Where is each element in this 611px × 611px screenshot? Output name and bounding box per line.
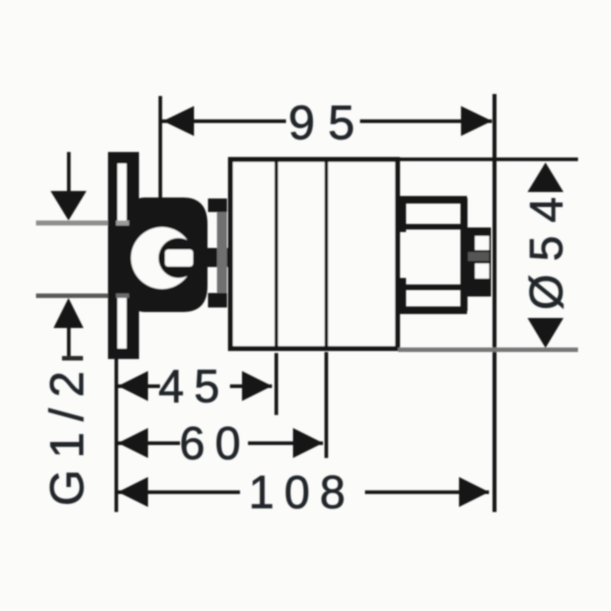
step bottom-left hook bbox=[400, 278, 407, 312]
svg-text:Ø54: Ø54 bbox=[520, 184, 572, 310]
dim-60 left arrowhead bbox=[118, 428, 148, 458]
main body outline bbox=[231, 160, 398, 349]
spindle broach ring bbox=[159, 238, 199, 278]
step inner top line bbox=[405, 224, 462, 230]
dim-95 dimension line bbox=[162, 119, 286, 123]
dim-95 right arrowhead bbox=[461, 106, 492, 136]
dim-45 left arrowhead bbox=[118, 371, 148, 401]
G1/2 upper pipe line (gray) bbox=[36, 221, 113, 226]
valve body hub bbox=[134, 198, 208, 313]
svg-text:95: 95 bbox=[288, 97, 367, 150]
thread mid shade bbox=[468, 252, 489, 261]
adapter gray bar bbox=[217, 202, 227, 306]
svg-text:45: 45 bbox=[158, 360, 229, 412]
dim-95 / dim-108 right extension line bbox=[493, 94, 497, 512]
G1/2 vertical leader lower segment bbox=[67, 327, 71, 358]
wall flange inner slot bbox=[118, 164, 127, 349]
wall-face extension line bbox=[115, 359, 119, 512]
step top-left hook bbox=[400, 198, 407, 232]
svg-text:108: 108 bbox=[249, 466, 356, 518]
step outer bottom line bbox=[398, 307, 467, 315]
svg-text:60: 60 bbox=[179, 417, 250, 469]
Ø54 up arrowhead bbox=[528, 163, 564, 193]
G1/2 leader dash bbox=[62, 356, 83, 361]
dim-60 right extension line bbox=[325, 352, 329, 458]
dim-108 right arrowhead bbox=[459, 477, 489, 507]
wall flange plate bbox=[108, 152, 139, 359]
G1/2 lower pipe line (gray) bbox=[36, 294, 113, 299]
G1/2 vertical leader upper segment bbox=[67, 152, 71, 194]
body seam line B bbox=[325, 162, 329, 346]
Ø54 down arrowhead bbox=[528, 318, 564, 348]
step inner bottom line bbox=[405, 285, 462, 291]
adapter top cap bbox=[208, 199, 227, 213]
dim-108 left arrowhead bbox=[118, 477, 148, 507]
dim-60 right arrowhead bbox=[293, 428, 323, 458]
G1/2 down arrowhead bbox=[51, 191, 87, 221]
body seam line A bbox=[275, 162, 279, 346]
dim-108 dimension line bbox=[118, 490, 240, 494]
body top line right extension (Ø54) bbox=[398, 158, 578, 162]
G1/2 upper pipe line across slot bbox=[116, 221, 129, 226]
dim-45 right extension line bbox=[275, 353, 279, 415]
dim-45 right arrowhead bbox=[242, 371, 272, 401]
G1/2 up arrowhead bbox=[54, 298, 84, 328]
adapter bottom cap bbox=[208, 293, 227, 308]
dim-95 left extension line bbox=[159, 96, 163, 200]
dim-45 dimension line bbox=[118, 384, 160, 388]
thread relief upper bbox=[475, 236, 489, 250]
hub right nub bbox=[202, 248, 233, 267]
spindle broach slot bbox=[165, 250, 193, 267]
step outer top line bbox=[398, 196, 467, 204]
handle bore circle bbox=[131, 227, 193, 289]
G1/2 lower pipe line across slot bbox=[116, 294, 129, 299]
dim-60 dimension line bbox=[118, 441, 180, 445]
svg-text:G1/2: G1/2 bbox=[40, 360, 93, 506]
step right edge bbox=[461, 198, 468, 311]
dim-95 left arrowhead bbox=[163, 106, 194, 136]
thread relief lower bbox=[475, 264, 489, 279]
threaded spigot block bbox=[465, 228, 491, 297]
body bottom line right extension (Ø54, gray) bbox=[398, 348, 578, 353]
G1/2 shaft through flange slot bbox=[116, 223, 129, 295]
